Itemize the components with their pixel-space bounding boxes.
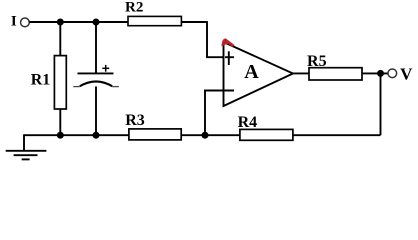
wire: corner down to noninverting input	[207, 21, 234, 57]
label R4	[238, 114, 258, 131]
label R5	[307, 53, 327, 70]
resistor R3	[129, 129, 181, 140]
wire: feedback right vertical	[380, 73, 382, 135]
svg-text:R4: R4	[238, 114, 258, 131]
junction dot: output node	[377, 70, 384, 77]
junction dot: inverting feedback node	[202, 132, 209, 139]
capacitor C1	[73, 73, 119, 86]
wire: feedback vertical to bottom net	[204, 91, 206, 136]
label + polarity of C1	[102, 65, 109, 72]
label R3	[125, 112, 145, 129]
noninverting input lead into triangle	[225, 56, 234, 58]
svg-text:R2: R2	[125, 0, 143, 16]
wire: ground stub	[23, 134, 25, 151]
wire: R1 top lead	[59, 22, 61, 57]
resistor R2	[128, 16, 181, 25]
svg-text:A: A	[244, 61, 259, 83]
resistor R1	[54, 56, 66, 109]
op-amp A	[224, 42, 294, 106]
wire: bottom net	[24, 134, 381, 136]
wire: capacitor C1 to bottom net	[95, 87, 97, 136]
label V	[400, 65, 413, 84]
wire: top net from input to corner above op-amp	[29, 21, 207, 23]
junction dot: R1 bottom node	[57, 132, 64, 139]
resistor R4	[240, 129, 293, 140]
wire: output net from op-amp to terminal	[293, 72, 388, 74]
svg-text:R1: R1	[31, 72, 51, 89]
svg-text:I: I	[11, 13, 17, 29]
junction dot: R1 top node	[57, 19, 64, 26]
svg-text:R5: R5	[307, 53, 327, 70]
label A	[244, 61, 259, 83]
wire: inverting input lead	[204, 90, 234, 92]
svg-text:V: V	[400, 65, 413, 84]
input terminal circle	[21, 18, 30, 27]
wire: R1 bottom lead	[59, 109, 61, 135]
label R1	[31, 72, 51, 89]
junction dot: C1 bottom node	[93, 132, 100, 139]
ground	[6, 151, 47, 160]
label I	[11, 13, 17, 29]
plus sign at noninverting input	[228, 51, 230, 65]
red mark at noninverting corner	[222, 39, 235, 47]
wire: top node down to capacitor C1	[95, 22, 97, 73]
label R2	[125, 0, 143, 16]
junction dot: C1 top node	[93, 19, 100, 26]
output terminal circle	[388, 69, 397, 78]
resistor R5	[309, 68, 362, 80]
svg-text:R3: R3	[125, 112, 145, 129]
